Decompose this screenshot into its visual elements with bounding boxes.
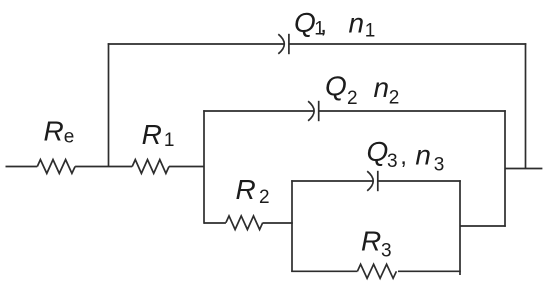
svg-text:,: , (400, 143, 407, 170)
svg-text:R: R (236, 174, 256, 205)
svg-text:3: 3 (434, 154, 445, 175)
svg-text:R: R (142, 119, 162, 150)
svg-text:Q: Q (367, 136, 389, 167)
svg-text:Q: Q (294, 7, 316, 38)
svg-text:2: 2 (389, 88, 400, 109)
svg-text:,: , (320, 11, 327, 38)
svg-text:R: R (361, 226, 381, 257)
svg-text:3: 3 (387, 151, 398, 172)
svg-text:n: n (374, 72, 390, 103)
svg-text:n: n (415, 139, 431, 170)
svg-text:3: 3 (381, 240, 392, 261)
svg-text:2: 2 (259, 187, 270, 208)
svg-text:1: 1 (164, 130, 175, 151)
svg-text:Q: Q (325, 71, 347, 102)
svg-text:2: 2 (347, 88, 358, 109)
svg-text:1: 1 (365, 21, 376, 42)
svg-text:e: e (64, 126, 75, 147)
svg-text:n: n (349, 8, 365, 39)
svg-text:R: R (44, 115, 64, 146)
